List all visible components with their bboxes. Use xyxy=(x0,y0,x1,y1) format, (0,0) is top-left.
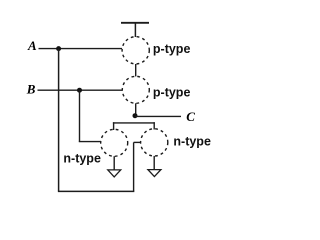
wire C xyxy=(135,115,181,117)
svg-text:p-type: p-type xyxy=(153,85,191,99)
transistor n-type N2 xyxy=(141,129,168,156)
wire N1 source stem xyxy=(113,156,115,170)
wire n-left gate horizontal xyxy=(79,141,101,143)
wire bottom xyxy=(58,190,134,192)
node output junction xyxy=(133,113,138,118)
wire T-bar right drop xyxy=(153,122,155,129)
wire n-right gate vertical xyxy=(133,142,135,191)
transistor p-type P1 xyxy=(122,37,149,64)
VDD power symbol xyxy=(121,23,149,38)
ground left xyxy=(108,170,121,177)
svg-text:A: A xyxy=(27,38,37,53)
wire T-bar left drop xyxy=(113,122,115,130)
wire P2 to output node xyxy=(135,103,137,116)
node B junction xyxy=(77,88,82,93)
wire A vertical xyxy=(58,49,60,192)
transistor n-type N1 xyxy=(101,129,128,156)
svg-text:n-type: n-type xyxy=(173,135,211,149)
svg-text:p-type: p-type xyxy=(153,42,191,56)
wire output T-bar xyxy=(113,122,155,124)
svg-text:C: C xyxy=(186,109,195,124)
wire B xyxy=(38,89,123,91)
wire N2 source stem xyxy=(153,156,155,170)
wire n-right gate horizontal xyxy=(134,141,141,143)
svg-text:n-type: n-type xyxy=(63,152,101,166)
wire A xyxy=(39,48,123,50)
svg-text:B: B xyxy=(26,81,36,96)
transistor p-type P2 xyxy=(122,76,149,103)
ground right xyxy=(148,170,161,177)
wire B vertical xyxy=(79,90,81,141)
node A junction xyxy=(56,46,61,51)
wire P1-P2 xyxy=(135,64,137,76)
